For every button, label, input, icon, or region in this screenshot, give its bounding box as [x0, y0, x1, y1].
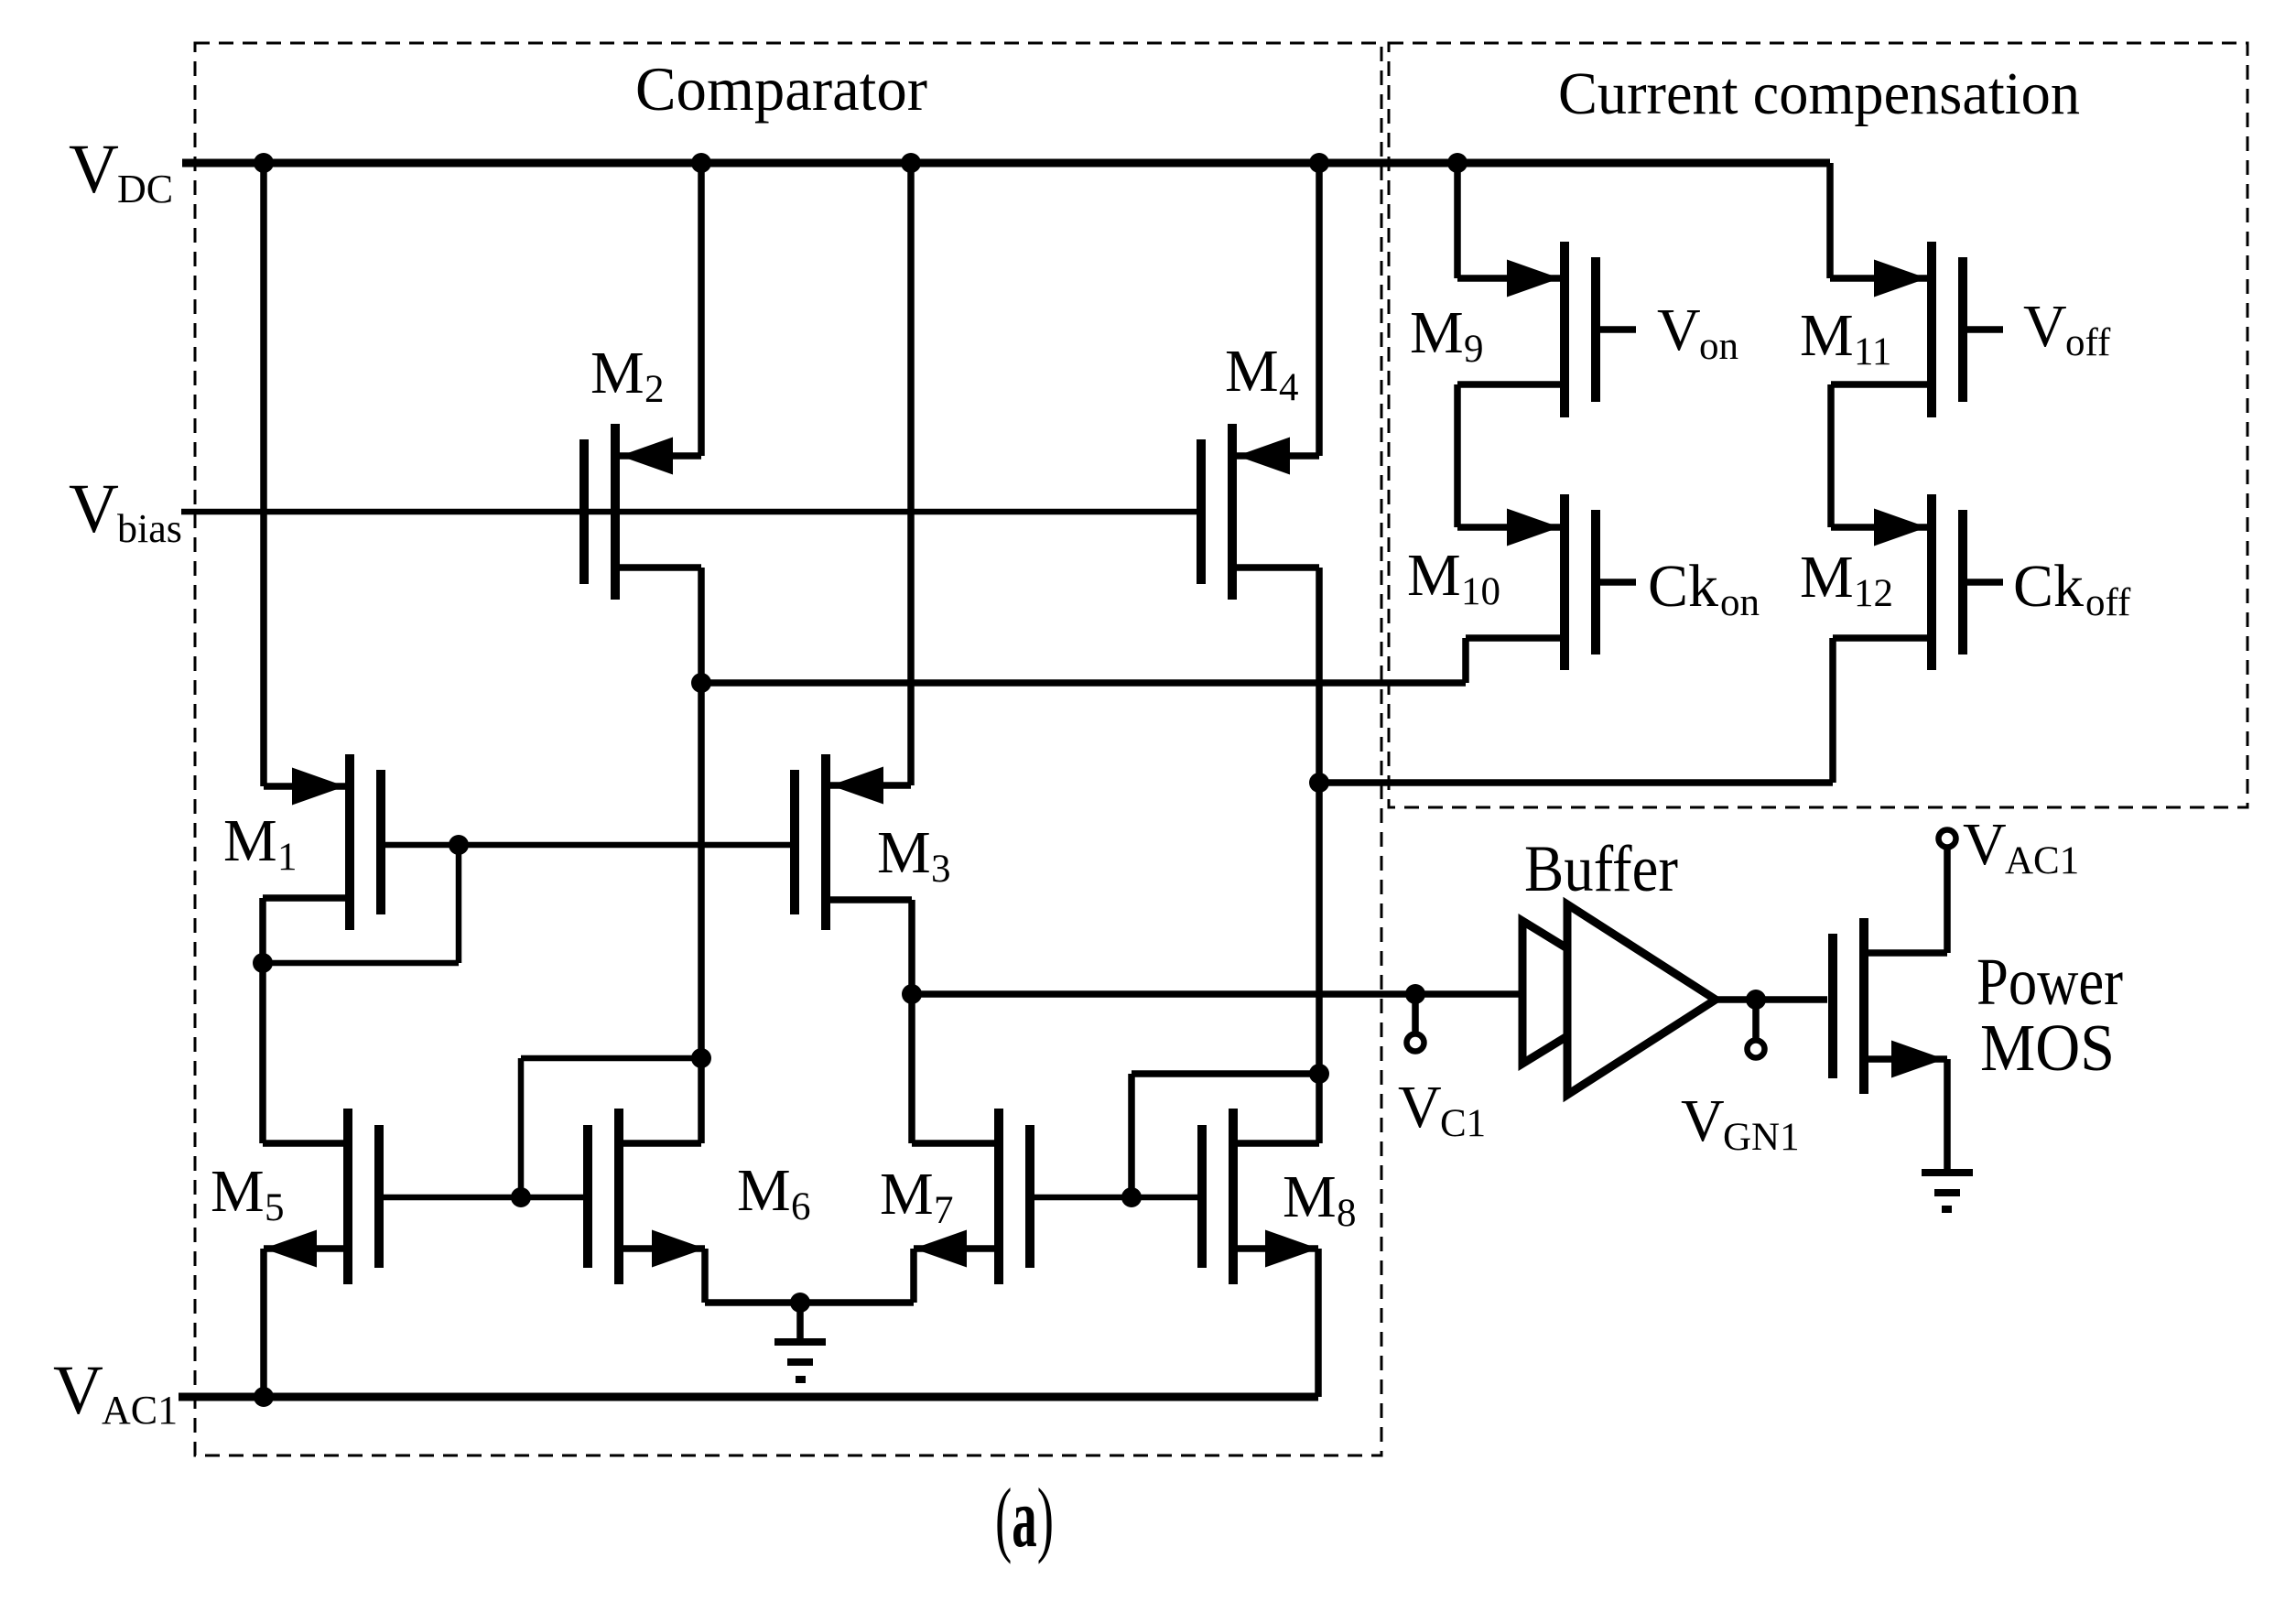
M11 source arrow [1874, 260, 1927, 297]
M8 label [1283, 1163, 1357, 1235]
VAC1 label right [1963, 811, 2079, 882]
node dot gate tap [449, 835, 469, 855]
net VDC rail [182, 159, 1830, 168]
wire M4drain to M7M8 gates [1132, 1074, 1319, 1197]
node dot M5M6 gate tap [511, 1187, 531, 1207]
svg-text:V: V [1681, 1087, 1725, 1154]
buffer stage 1 (small triangle) [1522, 921, 1639, 1064]
VAC1 label left [53, 1352, 178, 1433]
M3 label [877, 819, 951, 891]
wire M1 drain down [263, 898, 350, 1143]
Vbias label [69, 471, 182, 551]
M4 label [1225, 338, 1299, 409]
wire power mos drain to VAC1 terminal [1864, 848, 1947, 953]
svg-text:(a): (a) [995, 1471, 1054, 1564]
svg-text:M: M [1410, 299, 1464, 366]
M8 source arrow [1265, 1230, 1318, 1268]
node dot ground tie [790, 1293, 810, 1313]
svg-text:9: 9 [1464, 328, 1484, 371]
wire M4 drain down [1232, 568, 1319, 1143]
wire power mos source to ground [1864, 1059, 1947, 1169]
wire M2 source from VDC [617, 163, 701, 456]
svg-text:on: on [1720, 581, 1760, 624]
svg-text:V: V [69, 471, 119, 547]
node dot M3drain-VC1 [902, 984, 922, 1004]
svg-text:Ck: Ck [1648, 553, 1718, 620]
node dot VDC-M2 [691, 153, 711, 173]
ground (power mos) [1922, 1173, 1973, 1209]
svg-text:V: V [69, 131, 119, 208]
wire M11 source from VDC [1830, 163, 1927, 278]
svg-text:2: 2 [644, 368, 665, 411]
svg-text:on: on [1699, 325, 1738, 368]
svg-text:M: M [211, 1158, 265, 1225]
wire buffer output [1716, 996, 1827, 1003]
wire M12 source to M4 drain [1319, 638, 1932, 783]
svg-text:Buffer: Buffer [1524, 832, 1678, 905]
svg-text:AC1: AC1 [2005, 839, 2079, 882]
M5 source arrow [264, 1230, 317, 1268]
wire M11 drain to M12 [1831, 384, 1932, 527]
wire M6 source to ground [619, 1249, 914, 1303]
M7 label [880, 1161, 954, 1232]
title Current compensation [1558, 60, 2080, 127]
wire M2drain to M10 source [701, 638, 1565, 683]
svg-text:Current compensation: Current compensation [1558, 60, 2080, 127]
M2 label [590, 340, 665, 411]
M12 label [1800, 544, 1893, 615]
M9 label [1410, 299, 1484, 371]
node dot M2drain-M10 [691, 673, 711, 693]
ground (tail) [774, 1303, 826, 1379]
M7 source arrow [914, 1230, 967, 1268]
Von label [1657, 297, 1738, 368]
svg-text:M: M [737, 1157, 791, 1224]
buffer stage 2 (large triangle) [1567, 904, 1716, 1095]
node dot M2drain-gates [691, 1048, 711, 1068]
svg-text:M: M [223, 807, 277, 874]
svg-text:M: M [1407, 542, 1461, 609]
transistor M12 [1932, 494, 1963, 670]
wire M8 drain up [1233, 1140, 1319, 1147]
node dot VDC-M4 [1309, 153, 1329, 173]
M9 source arrow [1507, 260, 1560, 297]
M10 gate stub [1596, 579, 1636, 586]
svg-text:M: M [1225, 338, 1279, 405]
wire M3 source from VDC [828, 163, 911, 785]
svg-text:Power: Power [1977, 945, 2123, 1019]
transistor M4 [1201, 424, 1232, 600]
svg-text:AC1: AC1 [102, 1388, 178, 1433]
wire M9 source from VDC [1457, 163, 1560, 278]
svg-text:5: 5 [265, 1186, 285, 1229]
svg-text:C1: C1 [1440, 1102, 1486, 1145]
svg-text:off: off [2065, 321, 2111, 364]
wire M5-M6 gate line [383, 1195, 589, 1201]
svg-text:7: 7 [934, 1189, 954, 1232]
buffer title [1524, 832, 1678, 905]
svg-text:1: 1 [277, 836, 298, 879]
current compensation box (dashed) [1389, 43, 2247, 807]
VGN1 label [1681, 1087, 1800, 1159]
node dot VDC-M3 [901, 153, 921, 173]
transistor M8 [1202, 1109, 1233, 1284]
M10 source arrow [1507, 509, 1560, 546]
svg-text:V: V [53, 1352, 103, 1429]
wire M7-M8 gate line [1029, 1195, 1201, 1201]
M11 gate stub [1963, 326, 2003, 333]
wire M7 drain up [912, 1140, 999, 1147]
M6 label [737, 1157, 811, 1228]
VC1 label [1398, 1074, 1486, 1145]
M2 source arrow [620, 438, 673, 475]
svg-text:3: 3 [931, 848, 951, 891]
caption (a) [995, 1471, 1054, 1564]
power mos source arrow [1891, 1041, 1944, 1078]
svg-text:DC: DC [117, 167, 173, 211]
svg-text:MOS: MOS [1980, 1011, 2115, 1085]
transistor M11 [1932, 242, 1963, 417]
node dot M4drain-M7gate [1309, 1064, 1329, 1084]
M5 label [211, 1158, 285, 1229]
wire gates to M2 drain [521, 1058, 701, 1197]
svg-text:12: 12 [1854, 572, 1893, 615]
svg-text:V: V [2023, 293, 2067, 360]
svg-text:V: V [1657, 297, 1701, 363]
svg-text:GN1: GN1 [1723, 1116, 1800, 1159]
transistor M9 [1565, 242, 1596, 417]
Voff label [2023, 293, 2111, 364]
M10 label [1407, 542, 1500, 613]
VDC label [69, 131, 173, 211]
transistor Power MOS [1833, 918, 1864, 1094]
node dot VGN1 [1746, 990, 1766, 1010]
transistor M3 [795, 754, 826, 930]
M6 source arrow [652, 1230, 705, 1268]
wire M5 drain up [263, 1140, 348, 1147]
Ckoff label [2013, 553, 2131, 624]
svg-text:11: 11 [1854, 330, 1891, 373]
power mos label [1977, 945, 2123, 1085]
node dot VDC-M9 [1447, 153, 1467, 173]
wire M7 source to ground [914, 1249, 999, 1303]
M11 label [1800, 302, 1891, 373]
node dot VDC-M1 [254, 153, 274, 173]
net Vbias line [181, 509, 1201, 515]
transistor M7 [999, 1109, 1030, 1284]
wire diode connection [263, 845, 459, 963]
svg-text:M: M [590, 340, 644, 406]
wire M5 source to VAC1 [264, 1249, 348, 1397]
Ckon label [1648, 553, 1760, 624]
net VC1 line [912, 990, 1522, 998]
M1 label [223, 807, 298, 879]
M12 gate stub [1963, 579, 2003, 586]
M1 source arrow [292, 768, 345, 806]
net VAC1 line [179, 1393, 1318, 1401]
transistor M5 [348, 1109, 379, 1284]
VC1 terminal [1407, 994, 1424, 1052]
transistor M2 [584, 424, 615, 600]
svg-text:M: M [1800, 544, 1854, 611]
M3 source arrow [830, 767, 883, 805]
transistor M10 [1565, 494, 1596, 670]
wire M2 drain down [615, 568, 701, 1143]
svg-text:off: off [2085, 581, 2131, 624]
node dot VAC1-M5 [254, 1387, 274, 1407]
svg-text:Ck: Ck [2013, 553, 2084, 620]
node dot M1 diode [253, 953, 273, 973]
wire M9 drain to M10 [1457, 384, 1565, 527]
svg-text:bias: bias [117, 506, 182, 551]
node dot VC1 [1405, 984, 1425, 1004]
svg-text:V: V [1398, 1074, 1442, 1141]
svg-text:M: M [877, 819, 931, 886]
svg-text:Comparator: Comparator [635, 54, 927, 124]
svg-text:4: 4 [1279, 366, 1299, 409]
svg-text:10: 10 [1461, 570, 1500, 613]
svg-text:M: M [1800, 302, 1854, 369]
VAC1 terminal (top right) [1939, 830, 1956, 848]
wire M1-M3 gate line [382, 842, 795, 849]
svg-text:M: M [1283, 1163, 1337, 1230]
transistor M6 [588, 1109, 619, 1284]
transistor M1 [350, 754, 381, 930]
title Comparator [635, 54, 927, 124]
svg-text:V: V [1963, 811, 2007, 878]
node dot M7M8 gate tap [1121, 1187, 1142, 1207]
svg-text:6: 6 [791, 1185, 811, 1228]
VGN1 terminal [1748, 1000, 1765, 1058]
wire M4 source from VDC [1234, 163, 1319, 456]
wire M1 source from VDC [264, 163, 348, 786]
M4 source arrow [1237, 438, 1290, 475]
M12 source arrow [1874, 509, 1927, 546]
node dot M4drain-M12 [1309, 773, 1329, 793]
wire M8 source to VAC1 [1233, 1249, 1318, 1397]
svg-text:M: M [880, 1161, 934, 1228]
svg-text:8: 8 [1337, 1192, 1357, 1235]
wire M6 drain up [619, 1140, 701, 1147]
M9 gate stub [1596, 326, 1636, 333]
comparator box (dashed) [195, 43, 1381, 1455]
wire M3 drain down [826, 900, 912, 1143]
